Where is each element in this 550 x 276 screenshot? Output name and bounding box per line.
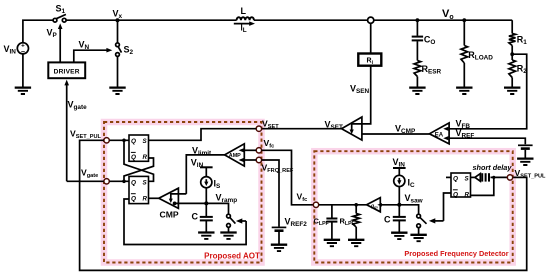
port VSET_PUL (AOT left) [104, 138, 109, 143]
capacitor C (detector) [384, 205, 406, 233]
wire VFRQ_REF port to AMP [241, 159, 257, 161]
arrow switch control (AOT) [236, 218, 246, 223]
ground under RESR [409, 88, 425, 94]
svg-text:Q: Q [131, 179, 136, 186]
ground under RLPF [348, 240, 364, 246]
wire VREF input [449, 138, 525, 144]
wire node to Ri [370, 23, 372, 53]
wire latch Q stub [446, 176, 451, 178]
wire IS to Vramp node [205, 188, 207, 204]
switch S1 [53, 4, 66, 23]
svg-text:R: R [143, 154, 148, 161]
svg-text:R: R [465, 191, 470, 198]
ground under VREF [517, 159, 533, 165]
source VIN [4, 43, 29, 56]
port VSET (AOT right) [256, 126, 261, 131]
arrow Vgate into driver [64, 80, 87, 182]
svg-text:Q: Q [453, 191, 458, 198]
node CO junction [416, 18, 420, 22]
wire gm input from Vsaw [380, 204, 399, 206]
wire VIN to ground [22, 54, 24, 87]
ground under detector C [391, 233, 407, 239]
node RLPF junction [354, 203, 358, 207]
node Vsaw [397, 203, 401, 207]
op-amp AMP [225, 144, 245, 166]
ground under RLOAD [456, 88, 472, 94]
inductor L [237, 6, 254, 20]
svg-text:L: L [241, 6, 247, 16]
transconductance amp gm [367, 198, 382, 212]
switch saw reset [399, 205, 426, 235]
ground under ramp C [198, 233, 214, 239]
current source IS [201, 177, 221, 190]
wire Vlimit (AMP out to CMP) [186, 155, 224, 194]
op-amp EA [429, 123, 449, 144]
latch U3 (bottom SR) [129, 176, 149, 203]
node VCMP into amp [355, 132, 359, 136]
arrow VP (driver to S1) [47, 23, 63, 62]
capacitor C (ramp) [192, 203, 213, 232]
node Vramp [204, 201, 208, 205]
comparator CMP [159, 188, 187, 219]
arrow switch control (detector) [429, 218, 444, 223]
ground under S2 [109, 88, 125, 94]
resistor RLOAD [461, 20, 493, 87]
svg-text:C: C [192, 212, 199, 222]
ground under CLPF [324, 240, 340, 246]
source VIN stub (AOT) [191, 158, 213, 177]
wire Ri to VSET amp (VSEN) [352, 66, 371, 124]
latch U4 (detector SR) [451, 173, 471, 198]
wire VIN to rail [23, 20, 55, 43]
ground under VREF2 [271, 245, 287, 251]
wire latch Q bar to switch control [444, 193, 452, 221]
capacitor CLPF [314, 205, 338, 240]
wire VSET_PUL port to latch Q [109, 139, 129, 141]
op-amp VSET (sense amp) [342, 117, 362, 140]
Proposed Frequency Detector box (pink halo + dashed border) [314, 151, 512, 262]
svg-text:gm: gm [370, 203, 378, 209]
svg-text:CMP: CMP [160, 210, 179, 220]
wire Vgate external [67, 180, 104, 182]
svg-text:AMP: AMP [229, 153, 241, 159]
svg-text:EA: EA [435, 133, 444, 139]
node sense (open circle) [368, 17, 374, 23]
arrow IL [234, 21, 255, 33]
wire Vfc port to AMP [241, 149, 257, 151]
node R1 R2 tap [510, 52, 514, 56]
wire R input [471, 177, 494, 195]
wire latch Q bar to switch control [124, 199, 246, 245]
wire CMP out to latch R [149, 197, 159, 199]
ground under saw switch [410, 235, 426, 241]
svg-text:Q: Q [131, 195, 136, 202]
node CMP input dot [173, 202, 177, 206]
DRIVER U1 [48, 62, 85, 78]
ground under R2 [504, 88, 520, 94]
wire VSET internal to latch S [149, 129, 257, 141]
wire Vfc to frequency detector [262, 150, 314, 205]
resistor Ri (sense) [358, 54, 381, 67]
wire feedback tap to VFB [449, 54, 527, 129]
wire L to sense node [254, 19, 368, 21]
svg-text:DRIVER: DRIVER [54, 68, 80, 75]
wire S2 to ground [117, 57, 119, 88]
node Vx [113, 9, 123, 23]
port Vgate (AOT left) [104, 179, 109, 184]
resistor R2 [509, 54, 527, 87]
resistor RLPF [340, 205, 360, 240]
port VFRQ_REF (AOT right) [256, 157, 261, 162]
capacitor CO [412, 20, 436, 46]
current source IC [394, 175, 415, 189]
wire LPF rail [319, 204, 367, 206]
wire S input via delay [471, 176, 475, 178]
source VIN stub (detector) [393, 157, 406, 175]
resistor R1 [509, 20, 527, 54]
wire VSET_PUL external (left loop) [80, 140, 527, 270]
wire VSET amp out to AOT port [262, 128, 342, 130]
node R tap [492, 176, 495, 179]
wire VFRQ_REF to VREF2 [262, 160, 279, 227]
svg-text:Proposed Frequency Detector: Proposed Frequency Detector [404, 249, 508, 258]
wire cross-couple R to Q row [124, 158, 154, 181]
delay element (short delay) [475, 173, 489, 181]
port Vfc (detector left) [313, 202, 318, 207]
node on Vgate wire [122, 180, 126, 184]
wire Vgate port to latch Q [109, 180, 129, 182]
node RLOAD junction [462, 18, 466, 22]
svg-text:Q: Q [131, 138, 136, 145]
ground under ramp switch [220, 233, 236, 239]
Proposed AOT box (pink halo + dashed border) [104, 122, 262, 263]
arrow VN (driver to S2) [74, 40, 113, 63]
wire IC to Vsaw node [398, 187, 400, 205]
svg-text:Q: Q [131, 154, 136, 161]
battery VREF [518, 145, 533, 158]
svg-text:C: C [384, 215, 391, 225]
resistor RESR [414, 41, 441, 87]
switch ramp reset [206, 203, 235, 232]
wire cross-couple Q to S (down) [124, 140, 154, 181]
wire S1 to Vx to L [66, 19, 237, 21]
port VSET_PUL (detector right) [507, 175, 512, 180]
latch U2 (top SR) [129, 135, 149, 161]
wire VCMP (EA out to VSET amp) [357, 133, 430, 135]
node on VSET_PUL wire [122, 139, 126, 143]
switch S2 [116, 20, 134, 56]
svg-text:Proposed AOT: Proposed AOT [204, 252, 260, 261]
svg-text:R: R [143, 195, 148, 202]
wire Vramp to CMP input [175, 202, 207, 204]
wire delay to VSET_PUL port [491, 176, 508, 178]
wire sense node to Vo rail [374, 19, 512, 21]
svg-text:short delay: short delay [473, 163, 513, 172]
ground under VIN [15, 88, 31, 94]
battery VREF2 [272, 217, 308, 245]
svg-text:Q: Q [453, 176, 458, 183]
port Vfc (AOT right) [256, 148, 261, 153]
